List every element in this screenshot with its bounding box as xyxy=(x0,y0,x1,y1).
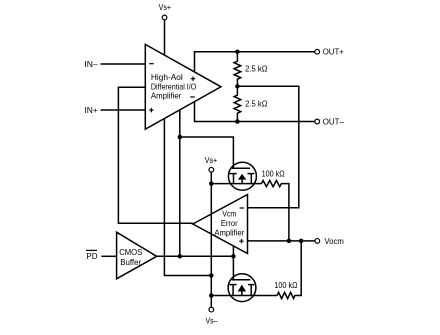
wire Vs+ stub to main amp xyxy=(164,20,166,55)
wire PD input xyxy=(101,255,116,257)
terminal Vocm xyxy=(315,239,320,244)
wire IN+ input xyxy=(101,109,146,111)
wire CMOS buffer output xyxy=(157,255,234,257)
wire IN- input xyxy=(101,63,146,65)
svg-text:2.5 kΩ: 2.5 kΩ xyxy=(245,98,267,108)
op-amp U1 High-Aol Differential I/O Amplifier xyxy=(145,44,221,129)
pin - main amp right bottom xyxy=(190,96,194,98)
junction line B to gate wire xyxy=(178,135,183,140)
junction lower 100k to Vocm xyxy=(299,239,304,244)
svg-text:Amplifier: Amplifier xyxy=(151,91,182,101)
svg-text:IN–: IN– xyxy=(84,59,98,69)
svg-text:PD: PD xyxy=(86,251,97,261)
junction buffer output to line B xyxy=(178,254,183,259)
junction node A on supply rail xyxy=(209,273,214,278)
svg-text:Vs+: Vs+ xyxy=(159,2,172,12)
junction Vs- rail xyxy=(209,293,214,298)
svg-text:Amplifier: Amplifier xyxy=(214,228,244,238)
junction upper 100k to Vocm xyxy=(287,239,292,244)
terminal Vs+ (top) xyxy=(162,15,167,20)
wire OUT+ tap from main amp xyxy=(195,52,316,72)
junction R1 top xyxy=(235,49,240,54)
terminal OUT- xyxy=(315,119,320,124)
wire OUT- tap from main amp xyxy=(195,102,316,122)
svg-text:CMOS: CMOS xyxy=(119,247,142,257)
svg-text:Vs+: Vs+ xyxy=(205,155,218,165)
junction R2 bottom xyxy=(235,119,240,124)
wire gate of upper MOSFET xyxy=(180,137,234,168)
wire Vocm net xyxy=(248,240,316,242)
pin - Vcm amp xyxy=(240,207,244,209)
PD overline xyxy=(86,249,97,251)
svg-text:Error: Error xyxy=(221,218,238,228)
terminal Vs+ (middle) xyxy=(209,167,214,172)
resistor R4 100k (lower) xyxy=(277,241,301,299)
pin + Vcm amp xyxy=(239,240,243,242)
svg-text:Vocm: Vocm xyxy=(324,236,343,246)
terminal Vs- xyxy=(209,307,214,312)
svg-text:IN+: IN+ xyxy=(84,105,97,115)
wire Vcm amp output feedback to main amp xyxy=(118,87,192,223)
wire main amp to node A (line A) xyxy=(164,119,211,276)
terminal OUT+ xyxy=(315,49,320,54)
junction Vs+ rail xyxy=(209,181,214,186)
svg-text:Buffer: Buffer xyxy=(120,257,141,267)
pin + main amp left bottom xyxy=(149,109,153,111)
op-amp U2 Vcm Error Amplifier xyxy=(193,195,248,254)
svg-text:Vs–: Vs– xyxy=(206,316,218,326)
junction resistor midpoint xyxy=(235,84,240,89)
transistor Q2 (lower MOSFET switch) xyxy=(228,274,256,302)
svg-text:100 kΩ: 100 kΩ xyxy=(274,280,297,290)
resistor R3 100k (upper) xyxy=(261,181,289,241)
wire main amp PD net (line B) xyxy=(179,110,181,256)
pin + main amp right top xyxy=(191,78,195,80)
wire supply vertical rail xyxy=(210,172,212,307)
wire upper MOSFET source rail xyxy=(211,183,261,185)
wire lower MOSFET source rail xyxy=(211,295,277,297)
pin - main amp left top xyxy=(149,63,154,65)
svg-text:OUT–: OUT– xyxy=(323,116,345,126)
resistor R1 2.5k xyxy=(234,52,241,87)
svg-text:100 kΩ: 100 kΩ xyxy=(262,169,285,179)
transistor Q1 (upper MOSFET switch) xyxy=(228,162,256,190)
resistor R2 2.5k xyxy=(234,86,241,121)
wire midpoint sense to Vcm error amp inverting input xyxy=(237,86,298,208)
svg-text:OUT+: OUT+ xyxy=(323,47,344,57)
junction buffer output to lower gate xyxy=(231,254,236,259)
svg-text:2.5 kΩ: 2.5 kΩ xyxy=(245,64,267,74)
wire gate of lower MOSFET from Vcm amp xyxy=(232,246,234,280)
buffer U3 CMOS Buffer xyxy=(117,232,157,279)
